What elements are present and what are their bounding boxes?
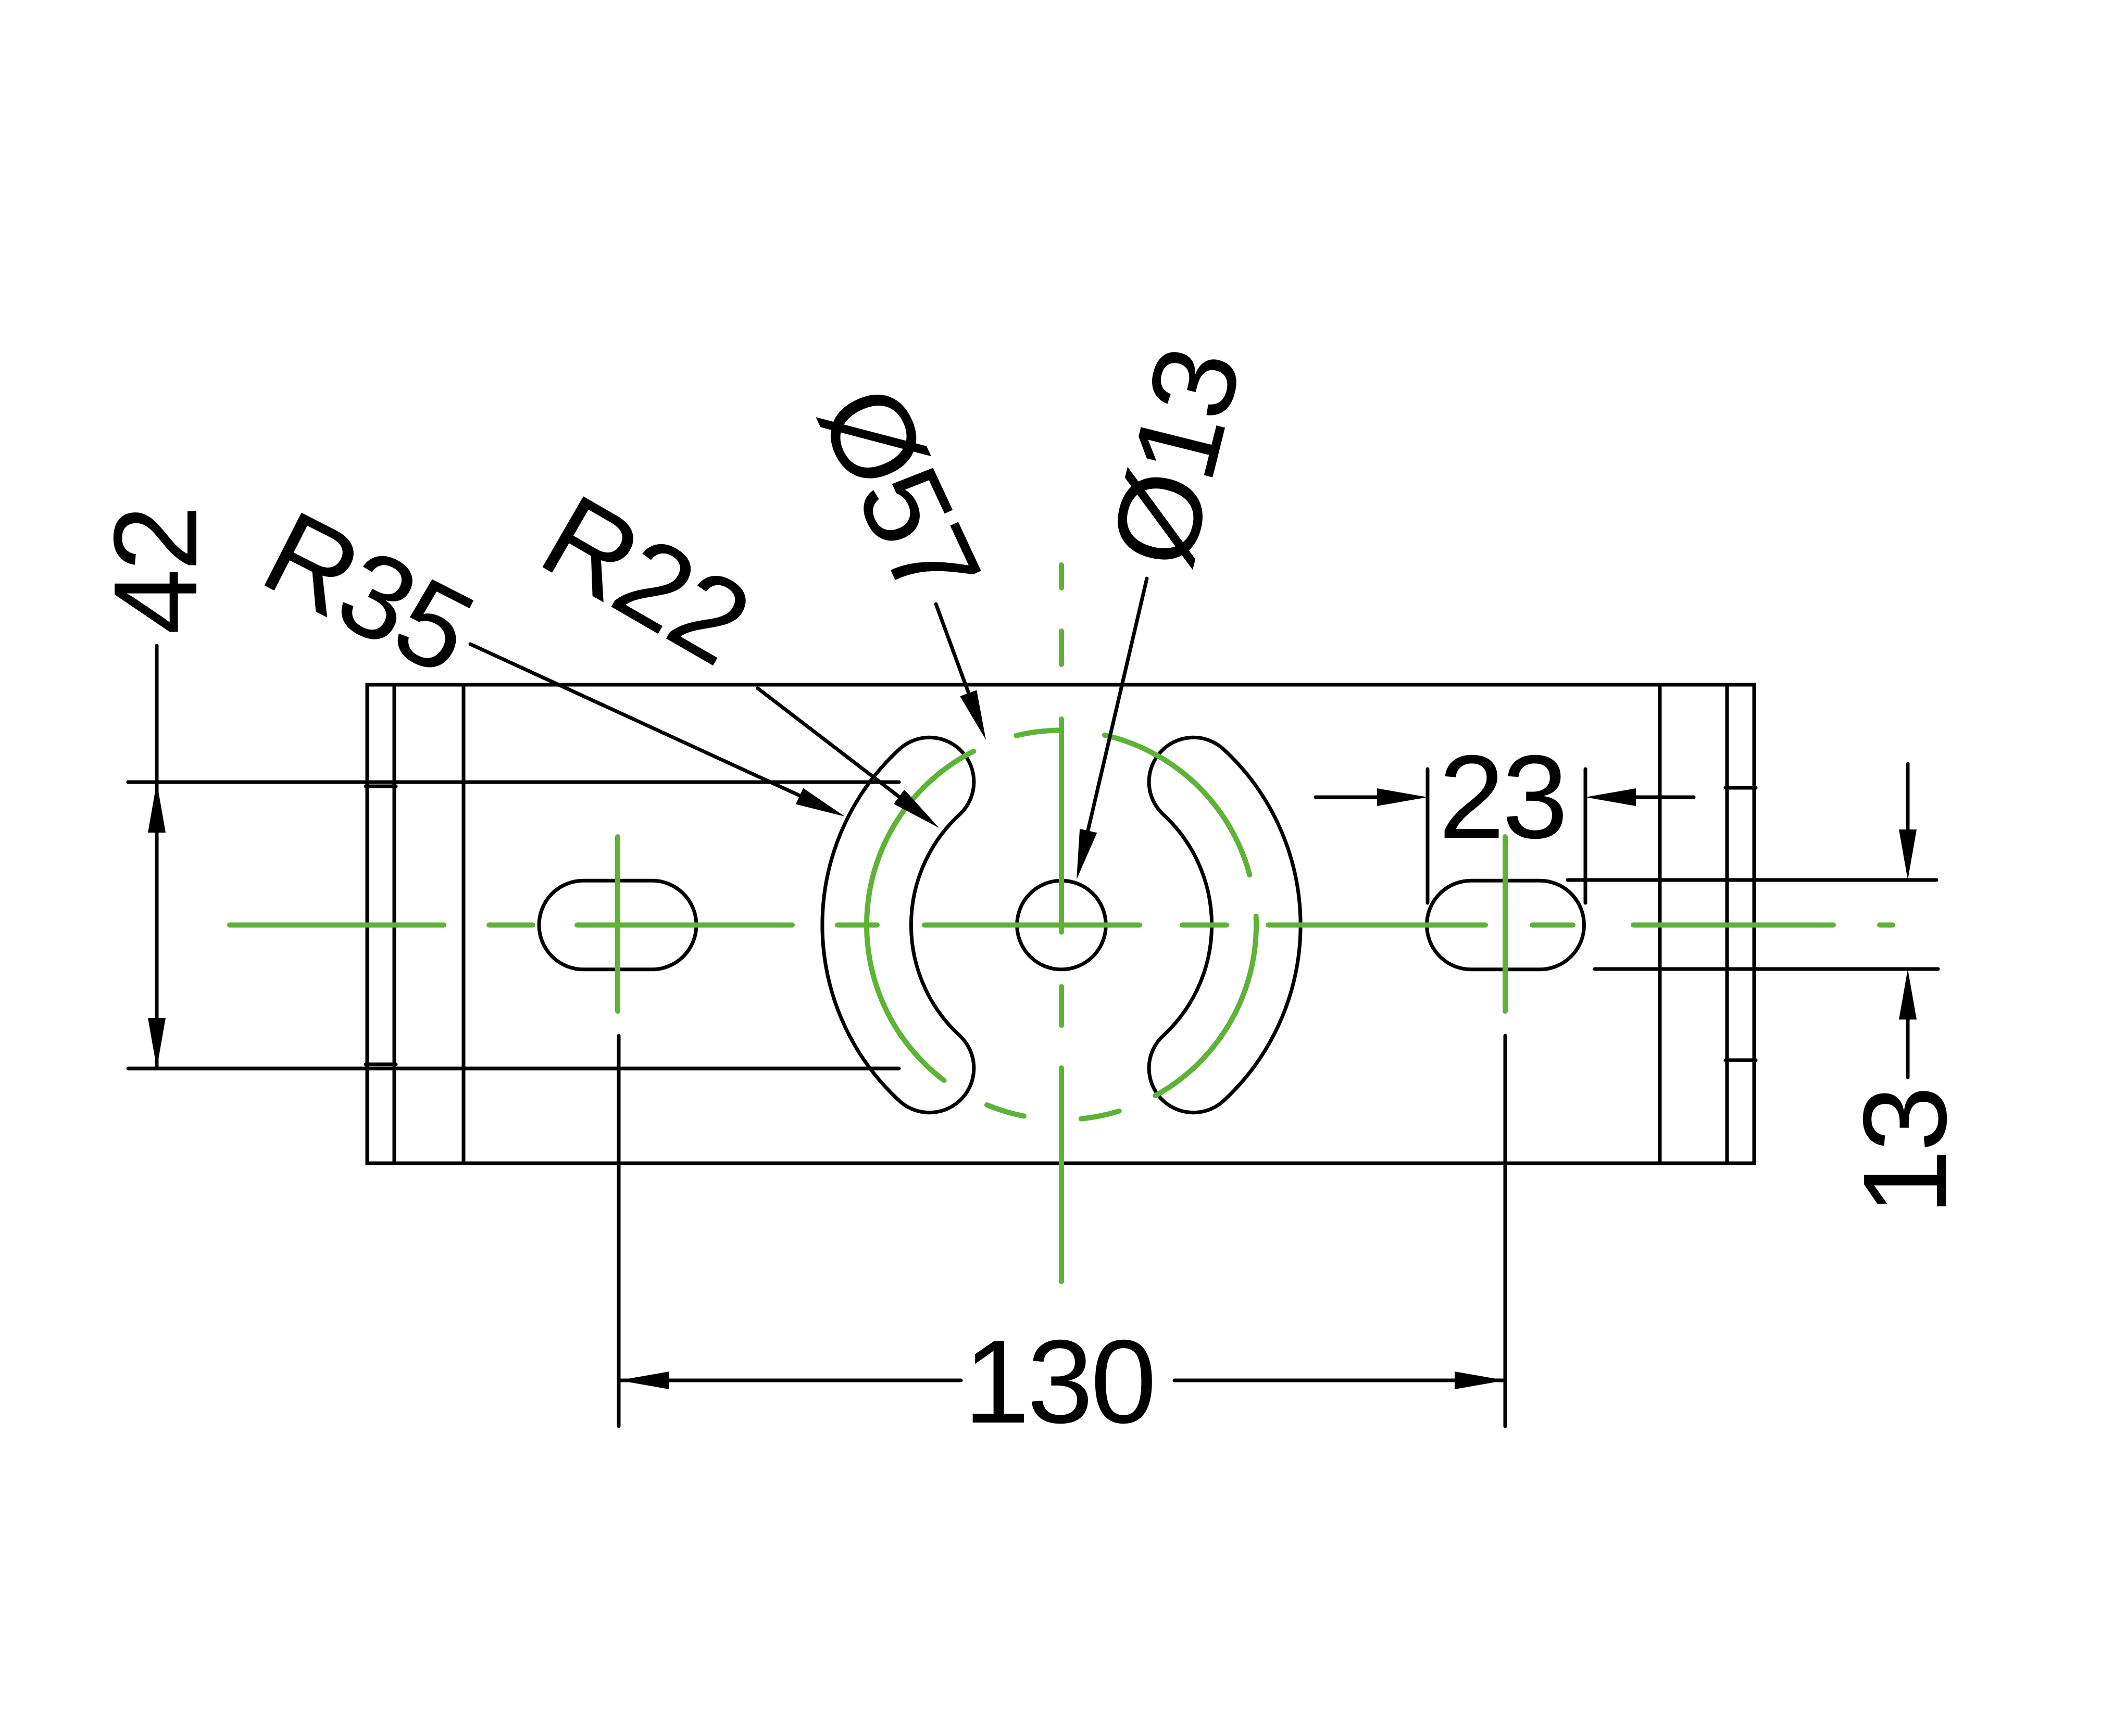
svg-text:42: 42 xyxy=(90,508,222,635)
centerline center vertical xyxy=(1059,565,1064,588)
right slot xyxy=(1427,880,1584,970)
dim 42 line xyxy=(155,646,159,1068)
arrowhead 130 left xyxy=(619,1372,669,1389)
svg-text:130: 130 xyxy=(964,1316,1154,1448)
dim 23 line right xyxy=(1630,796,1694,799)
arrowhead 42 bottom xyxy=(148,1018,166,1068)
dim 23 line left xyxy=(1316,796,1380,799)
bend line left xyxy=(462,685,466,1163)
dim 23 extension left xyxy=(1426,769,1430,903)
centerline right slot vertical xyxy=(1503,837,1508,1011)
hole circle O13 xyxy=(1017,880,1106,970)
dim 42 extension top xyxy=(128,781,899,784)
leader O13 xyxy=(1087,578,1147,833)
left arc slot xyxy=(822,737,974,1112)
bolt circle O57 dashed xyxy=(1105,735,1250,875)
dim 42 extension bottom xyxy=(128,1067,899,1071)
left slot xyxy=(539,880,696,970)
dim 130 line xyxy=(619,1379,961,1382)
notch mark top left xyxy=(366,785,396,788)
arrowhead 13 bottom xyxy=(1899,969,1917,1020)
arrowhead R22 xyxy=(894,790,939,828)
dim 130 extension left xyxy=(617,1036,621,1426)
dim 130 extension right xyxy=(1504,1036,1507,1426)
plate outline xyxy=(367,685,1754,1163)
arrowhead 23 left xyxy=(1377,788,1428,806)
centerline horizontal xyxy=(230,923,444,928)
centerline left slot vertical xyxy=(615,837,620,1011)
dim 13 line bottom xyxy=(1906,1015,1910,1077)
arrowhead 13 top xyxy=(1899,829,1917,880)
bend line right inner xyxy=(1725,685,1729,1163)
dim 13 line top xyxy=(1906,764,1910,833)
notch mark bottom right xyxy=(1725,1059,1756,1062)
arrowhead R35 xyxy=(796,788,845,816)
notch mark bottom left xyxy=(366,1063,396,1066)
bend line right xyxy=(1658,685,1662,1163)
dim 13 extension top xyxy=(1568,878,1936,882)
svg-text:23: 23 xyxy=(1439,731,1566,863)
arrowhead 23 right xyxy=(1585,788,1636,806)
notch mark top right xyxy=(1725,786,1756,790)
leader R35 xyxy=(470,644,802,797)
dim 13 extension bottom xyxy=(1595,967,1938,971)
right arc slot xyxy=(1149,737,1300,1112)
arrowhead 130 right xyxy=(1455,1372,1505,1389)
arrowhead O13 xyxy=(1077,829,1097,879)
arrowhead O57 xyxy=(960,690,986,740)
arrowhead 42 top xyxy=(148,782,166,833)
bend line left inner xyxy=(393,685,396,1163)
leader O57 xyxy=(936,604,970,696)
dim 23 extension right xyxy=(1584,769,1587,903)
svg-text:13: 13 xyxy=(1839,1088,1971,1215)
leader R22 xyxy=(758,688,901,798)
